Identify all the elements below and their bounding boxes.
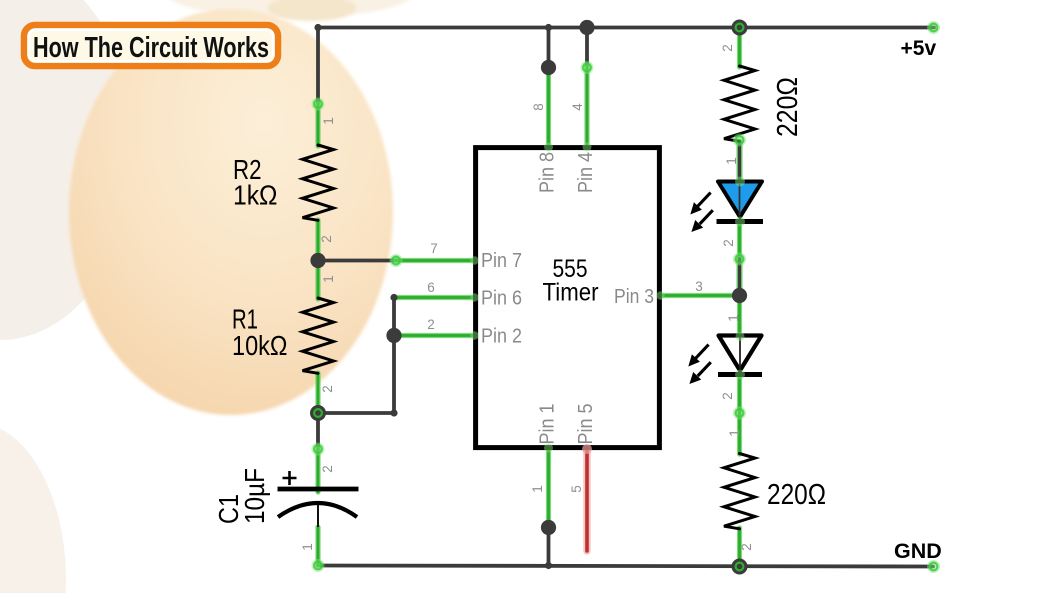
wire: pin4 from rail [585,28,589,66]
svg-text:2: 2 [720,392,735,400]
node: B right small dot [390,409,397,416]
wire: pin1 down [546,448,551,521]
wire +5v top rail [318,26,934,30]
wire: pin5 red stub [583,450,591,551]
background blob: peach circle [165,0,415,18]
wire: green to Pin 7 [396,258,474,263]
node B junction (R1 bottom) [310,405,326,421]
svg-text:+5v: +5v [901,37,937,60]
wire: node B horizontal dark to x394 [318,411,394,415]
svg-text:2: 2 [720,44,735,52]
LED D2 (clear) [688,336,762,385]
wire: LED2 through to 220R bottom [737,376,742,454]
svg-text:1: 1 [724,157,739,165]
svg-text:10kΩ: 10kΩ [232,330,288,361]
svg-text:5: 5 [569,485,584,493]
svg-text:GND: GND [894,539,942,563]
wire: green into C1 top plate [315,449,320,492]
wire: pin8 from rail [547,28,551,63]
wire: green to Pin 2 [394,333,474,338]
svg-text:220Ω: 220Ω [767,479,826,511]
background blob: light bottom-left [0,422,66,593]
node: pin2 junction [386,328,401,343]
svg-text:Pin 4: Pin 4 [574,152,597,193]
svg-text:220Ω: 220Ω [772,77,804,137]
LED D2 emission arrows [688,345,711,384]
LED D1 (blue) [690,182,763,233]
node: rail corner left [314,24,321,31]
wire: +5v rail to 220R (green) [737,28,742,68]
wire: LED1 to node C [737,222,742,259]
wire: pin3 to node C [661,293,740,298]
wire: top rail down to R2 (dark part) [316,28,320,105]
node C junction (pin3/LEDs) [732,288,747,303]
svg-text:Pin 2: Pin 2 [481,325,522,348]
svg-text:1: 1 [321,275,336,283]
node: 220R to gnd junction [732,559,748,575]
node B green ring [314,409,322,417]
svg-text:1: 1 [726,314,741,322]
svg-text:4: 4 [570,103,585,111]
svg-text:2: 2 [427,317,435,332]
node: pin8 tap on rail [545,24,552,31]
LED D1 emission arrows [690,193,713,232]
svg-text:1: 1 [300,543,315,551]
svg-text:Pin 1: Pin 1 [536,404,559,445]
wire: C1 bottom to GND rail [315,527,320,566]
svg-text:8: 8 [531,103,546,111]
title box [24,25,278,66]
wire: green to Pin 6 [394,295,474,300]
resistor 220R top [724,66,755,141]
op-amp/IC U1: 555 timer box [476,148,660,448]
node: pin6 small dot [390,294,397,301]
wire: vertical dark x394 pin6 to pin2 to bottom [392,298,396,414]
svg-text:2: 2 [320,465,335,473]
svg-text:Pin 5: Pin 5 [574,404,597,445]
svg-text:Pin 3: Pin 3 [614,285,654,308]
node: pin4 tap big dot on rail [579,20,594,35]
svg-text:6: 6 [427,280,435,295]
resistor R2 1k [303,145,334,220]
svg-text:1kΩ: 1kΩ [233,180,278,211]
capacitor C1 [278,471,359,527]
node: pin8 junction dot [541,60,556,75]
wire: node B down dark to C1 [316,413,320,449]
svg-text:1: 1 [530,485,545,493]
svg-text:1: 1 [727,429,742,437]
resistor 220R bottom [724,454,755,529]
wire: R1 bottom to node B [315,373,320,413]
wire GND bottom rail [318,566,933,567]
wire: node A horizontal dark to x396 [318,259,396,263]
svg-text:10µF: 10µF [239,468,270,524]
svg-text:1: 1 [321,117,336,125]
node A junction (R2/R1/pin7) [310,253,325,268]
svg-text:2: 2 [319,235,334,243]
wire: node A down to R1 top [315,261,320,299]
wire: green into R2 [315,104,320,146]
gnd junction green ring [736,563,744,571]
svg-text:3: 3 [695,279,703,294]
svg-text:How The Circuit Works: How The Circuit Works [33,32,269,64]
wire: 220R bottom to GND rail [737,528,742,567]
node: pin1 tap on gnd rail [545,562,552,569]
svg-text:Pin 8: Pin 8 [536,152,559,193]
svg-text:Pin 7: Pin 7 [481,249,522,272]
svg-text:2: 2 [320,385,335,393]
svg-text:2: 2 [721,239,736,247]
background blob: light top-left [0,0,136,340]
node +5v junction green ring [736,24,744,32]
wire: node C to LED2 [737,296,742,335]
node: +5v to 220R junction [732,20,748,36]
wire: R2 bottom to node A [315,220,320,261]
svg-text:Timer: Timer [543,280,599,307]
svg-text:7: 7 [430,241,438,256]
node: pin1 junction dot [541,520,556,535]
svg-text:Pin 6: Pin 6 [481,287,522,310]
wire: 220R to LED1 (dark w/ glow) [736,142,742,183]
resistor R1 10k [303,298,334,373]
svg-text:2: 2 [739,543,754,551]
